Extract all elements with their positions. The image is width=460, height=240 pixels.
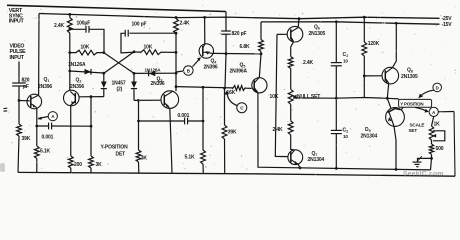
svg-text:820: 820 bbox=[22, 78, 30, 84]
node 0.001 left east bbox=[90, 125, 93, 128]
resistor 3K left bbox=[89, 156, 94, 168]
node X lower-left bbox=[102, 72, 105, 75]
wire Q7 emitter drop bbox=[298, 164, 300, 168]
wire video input drop bbox=[18, 62, 19, 173]
node cap tap left bbox=[68, 28, 71, 31]
potentiometer 10K null set bbox=[288, 89, 293, 104]
node 16K tap 5.1K bbox=[202, 86, 205, 89]
svg-text:2N1305: 2N1305 bbox=[309, 31, 326, 37]
wire null wiper line bbox=[293, 98, 399, 99]
label 10K left bbox=[81, 44, 90, 50]
transistor Q2 bbox=[64, 90, 80, 106]
resistor 39K left bbox=[17, 124, 22, 136]
node Q7 emitter junction bbox=[299, 167, 302, 170]
label Y-POSITION DET bbox=[101, 145, 129, 158]
resistor 6.8K bbox=[259, 40, 264, 52]
svg-text:10: 10 bbox=[343, 59, 348, 64]
label Q6 bbox=[314, 25, 320, 31]
wire base tie column bbox=[275, 34, 288, 156]
transistor Q7 bbox=[288, 150, 303, 165]
label 1K bbox=[434, 121, 441, 127]
label Q3 bbox=[157, 77, 163, 83]
wire 3K right column bbox=[138, 100, 140, 172]
svg-text:3K: 3K bbox=[141, 156, 148, 162]
label Q9 bbox=[365, 127, 371, 133]
svg-text:Y POSITION: Y POSITION bbox=[400, 102, 423, 107]
label 820 pF bbox=[22, 78, 30, 90]
resistor 39K right bbox=[222, 125, 227, 139]
wire 0.001 left link bbox=[37, 125, 91, 127]
node D arrow bbox=[418, 90, 433, 98]
label 2N396A Q5 bbox=[230, 69, 248, 75]
resistor 3K right bbox=[136, 150, 141, 162]
svg-text:2N396: 2N396 bbox=[70, 84, 84, 90]
node B circle bbox=[184, 66, 194, 76]
svg-text:D: D bbox=[436, 85, 439, 90]
label VIDEO PULSE INPUT bbox=[10, 44, 27, 62]
wire 820pF drop bbox=[225, 12, 226, 89]
svg-text:2.4K: 2.4K bbox=[180, 21, 191, 27]
label 500 bbox=[436, 146, 444, 152]
svg-text:(2): (2) bbox=[117, 87, 123, 93]
svg-text:39K: 39K bbox=[228, 130, 237, 136]
label 2N396 Q3 bbox=[151, 81, 165, 87]
wire 120K column bbox=[363, 17, 365, 97]
diode 1N457 left bbox=[101, 82, 107, 89]
label 1N126A right bbox=[145, 68, 162, 73]
node 500 ground junction bbox=[430, 157, 433, 160]
label 820 pF sync bbox=[232, 31, 247, 37]
svg-text:5.1K: 5.1K bbox=[185, 155, 196, 161]
svg-text:500: 500 bbox=[436, 146, 444, 152]
wire Q3 emitter drop bbox=[170, 108, 172, 173]
svg-text:100μF: 100μF bbox=[77, 21, 91, 27]
capacitor 100uF left bbox=[86, 26, 89, 33]
node 10K left west bbox=[68, 51, 71, 54]
wire Q1 base lead bbox=[19, 100, 30, 102]
node C arrow bbox=[224, 91, 237, 106]
capacitor 100pF right bbox=[125, 30, 128, 37]
wire 500 to ground bbox=[418, 154, 432, 162]
svg-text:2N1305: 2N1305 bbox=[401, 74, 418, 80]
node Q4 collector rail tap bbox=[203, 16, 206, 19]
transistor Q1 bbox=[27, 94, 42, 109]
node 16K tap 39K bbox=[223, 87, 226, 90]
label Q7 bbox=[312, 151, 318, 157]
box Y POSITION bbox=[399, 99, 432, 107]
wire 100uF right lead corner bbox=[89, 29, 104, 52]
wire 16K line bbox=[176, 87, 252, 89]
node C circle bbox=[237, 103, 247, 113]
svg-text:2.4K: 2.4K bbox=[54, 23, 65, 29]
resistor 200 bbox=[68, 156, 73, 168]
node X lower-right bbox=[133, 72, 136, 75]
svg-text:100 pF: 100 pF bbox=[132, 21, 147, 27]
wire A to right riser bbox=[438, 111, 454, 113]
resistor 5.1K left bbox=[34, 146, 39, 159]
label 2N1305 Q6 bbox=[309, 31, 326, 37]
ground symbol bbox=[413, 156, 422, 166]
svg-text:SCALE: SCALE bbox=[410, 122, 425, 127]
label 3K right bbox=[141, 156, 148, 162]
capacitor C2 bbox=[331, 130, 342, 133]
node 820pF junction bbox=[225, 52, 228, 55]
wire Q4 collector riser bbox=[204, 17, 206, 44]
label SCALE SET bbox=[409, 122, 425, 133]
svg-text:120K: 120K bbox=[368, 41, 380, 47]
label -25V bbox=[442, 16, 453, 22]
wire cross diagonal A bbox=[104, 53, 134, 74]
capacitor 820pF input bbox=[12, 83, 26, 86]
label Y POSITION bbox=[400, 102, 423, 107]
capacitor 0.001 left bbox=[49, 123, 52, 130]
node Q8 collector rail tap bbox=[395, 22, 398, 25]
transistor Q4 bbox=[199, 44, 213, 58]
label C2 bbox=[343, 128, 349, 140]
wire -25V rail bbox=[39, 14, 440, 19]
scan smudge left 1 bbox=[4, 108, 8, 111]
node 6.8K junction bbox=[260, 53, 263, 56]
wire 3K left column bbox=[90, 97, 92, 173]
svg-text:5.1K: 5.1K bbox=[40, 149, 51, 155]
label 5.1K right bbox=[185, 155, 196, 161]
svg-text:-15V: -15V bbox=[442, 22, 453, 28]
label 2N396 Q1 bbox=[38, 84, 52, 90]
wire 1N126A left line bbox=[70, 71, 104, 73]
wire -15V rail bbox=[261, 22, 440, 24]
resistor 10K right bbox=[134, 50, 176, 55]
resistor 2.4K right bbox=[174, 19, 179, 34]
label 2.4K Q7 bbox=[273, 127, 284, 133]
wire 100pF right lead bbox=[121, 33, 176, 53]
label 39K right bbox=[228, 130, 237, 136]
wire 6.8K column bbox=[259, 22, 261, 78]
svg-text:INPUT: INPUT bbox=[9, 18, 25, 24]
resistor 2.4K left bbox=[67, 18, 72, 34]
svg-text:820 pF: 820 pF bbox=[232, 31, 247, 37]
scan smudge left 2 bbox=[0, 163, 5, 172]
label 100pF right bbox=[132, 21, 147, 27]
label 6.8K bbox=[240, 44, 251, 50]
svg-text:2N396: 2N396 bbox=[151, 81, 165, 87]
label 3K left bbox=[96, 162, 103, 168]
label Q1 bbox=[44, 77, 50, 83]
node Q9 top junction bbox=[386, 97, 389, 100]
wire A to scale pot bbox=[432, 117, 434, 127]
wire Q8 emitter drop bbox=[387, 83, 388, 98]
svg-text:2.4K: 2.4K bbox=[303, 60, 314, 66]
node Q1 emitter junction bbox=[35, 125, 38, 128]
svg-text:Y-POSITION: Y-POSITION bbox=[101, 145, 129, 151]
node Q9 emitter junction bbox=[395, 168, 398, 171]
diode 1N126A left bbox=[85, 69, 92, 75]
label 0.001 left bbox=[42, 135, 54, 141]
wire arrow to A bbox=[415, 107, 429, 112]
node C1 wiper tap bbox=[335, 97, 338, 100]
wire 100uF left lead bbox=[70, 28, 86, 30]
label 2.4K right bbox=[180, 21, 191, 27]
svg-text:SET: SET bbox=[409, 128, 418, 133]
capacitor C1 bbox=[331, 63, 342, 66]
capacitor 820pF sync bbox=[221, 31, 231, 34]
label 120K bbox=[368, 41, 380, 47]
label Q5 bbox=[240, 63, 246, 69]
label 10K pot bbox=[270, 94, 279, 100]
svg-text:200: 200 bbox=[74, 162, 82, 168]
wire Q5 emitter run bbox=[258, 93, 431, 170]
svg-text:10K: 10K bbox=[270, 94, 279, 100]
wire right edge riser bbox=[454, 112, 455, 177]
label 2.4K left bbox=[54, 23, 65, 29]
label 2.4K Q6 bbox=[303, 60, 314, 66]
node A output circle bbox=[429, 107, 438, 116]
label 1N457 (2) bbox=[112, 81, 126, 93]
label 100uF bbox=[77, 21, 91, 27]
wire bottom common rail bbox=[18, 172, 455, 176]
wire cross diagonal B bbox=[104, 52, 134, 73]
label NULL SET bbox=[297, 94, 320, 100]
diode 1N126A right bbox=[149, 71, 156, 77]
svg-text:3K: 3K bbox=[96, 162, 103, 168]
resistor 5.1K right bbox=[201, 150, 206, 164]
label Q4 bbox=[211, 59, 217, 65]
resistor 2.4K Q6 bbox=[288, 57, 293, 69]
scan speckle noise bbox=[7, 5, 456, 178]
svg-text:DET: DET bbox=[116, 152, 126, 158]
svg-text:NULL SET: NULL SET bbox=[297, 94, 320, 100]
node Q3 base bias tap bbox=[137, 99, 140, 102]
wire Q4 emitter line bbox=[213, 52, 261, 55]
watermark SeekIC.com bbox=[403, 170, 444, 177]
wire junction to common bbox=[431, 158, 432, 170]
label 200 bbox=[74, 162, 82, 168]
node 10K right east bbox=[175, 51, 178, 54]
label VERT SYNC INPUT bbox=[9, 8, 25, 24]
wire Q6 emitter column bbox=[291, 42, 294, 150]
wire Q6 collector riser bbox=[297, 19, 300, 28]
label 0.001 right bbox=[178, 113, 190, 119]
node X upper-right bbox=[133, 50, 136, 53]
wire Q1 emitter drop bbox=[36, 108, 38, 173]
node B stub bbox=[176, 71, 184, 72]
svg-text:39K: 39K bbox=[22, 136, 31, 142]
node 1N126A right east bbox=[175, 72, 178, 75]
wire Q9 collector link bbox=[401, 107, 403, 110]
svg-text:2N396A: 2N396A bbox=[230, 69, 248, 75]
wire Q8 collector riser bbox=[392, 23, 396, 67]
resistor 2.4K Q7 bbox=[288, 121, 293, 135]
transistor Q9 bbox=[386, 98, 405, 126]
label 10K right bbox=[144, 44, 153, 50]
wire 1N126A right line bbox=[134, 72, 176, 74]
potentiometer 1K scale set bbox=[429, 126, 433, 140]
node A circle bbox=[48, 112, 57, 121]
label 2N396 Q4 bbox=[204, 65, 218, 71]
wire right flipflop column bbox=[175, 18, 177, 92]
svg-text:6.8K: 6.8K bbox=[240, 44, 251, 50]
wire left flipflop column bbox=[69, 14, 71, 90]
svg-text:SeekIC.com: SeekIC.com bbox=[403, 170, 444, 177]
resistor 120K bbox=[362, 42, 367, 56]
label Q8 bbox=[407, 68, 413, 74]
node X upper-left bbox=[102, 51, 105, 54]
node rail tap 2.4K left bbox=[68, 13, 71, 16]
node 16K line west bbox=[175, 85, 178, 88]
wire Q8 base lead bbox=[364, 75, 382, 77]
label 5.1K left bbox=[40, 149, 51, 155]
node rail tap 2.4K right bbox=[175, 16, 178, 19]
svg-text:10K: 10K bbox=[144, 44, 153, 50]
svg-text:1K: 1K bbox=[434, 121, 441, 127]
node 0.001 right east bbox=[202, 120, 205, 123]
label Q2 bbox=[76, 78, 82, 84]
svg-text:10K: 10K bbox=[81, 44, 90, 50]
svg-text:1N126A: 1N126A bbox=[68, 62, 86, 68]
svg-text:2N1304: 2N1304 bbox=[361, 133, 378, 139]
resistor 16K bbox=[232, 86, 246, 91]
node Q2 base bias tap bbox=[90, 95, 93, 98]
diode 1N457 right bbox=[131, 82, 137, 89]
svg-text:0.001: 0.001 bbox=[42, 135, 54, 141]
node A stub arrow bbox=[37, 117, 48, 120]
label 1N126A left bbox=[68, 62, 86, 68]
wire Q4 base arrow bbox=[192, 57, 201, 67]
node base tap Q1 bbox=[18, 99, 21, 102]
wire C1 C2 column bbox=[335, 22, 337, 169]
node C column rail tap bbox=[335, 20, 338, 23]
svg-text:2.4K: 2.4K bbox=[273, 127, 284, 133]
wiper loop scale set bbox=[432, 131, 445, 141]
transistor Q6 bbox=[287, 26, 303, 42]
node 1N126A left west bbox=[68, 70, 71, 73]
node Q8 base tap bbox=[363, 75, 366, 78]
svg-text:INPUT: INPUT bbox=[10, 55, 25, 61]
resistor 500 bbox=[429, 140, 433, 154]
label -15V bbox=[442, 22, 453, 28]
label 2N1305 Q8 bbox=[401, 74, 418, 80]
node C2 bottom junction bbox=[335, 167, 338, 170]
node 120K rail tap bbox=[363, 16, 366, 19]
capacitor 0.001 right bbox=[185, 118, 188, 125]
svg-text:2N396: 2N396 bbox=[204, 65, 218, 71]
wire 1N457 left column bbox=[103, 73, 105, 96]
wire Q2 base line bbox=[79, 96, 104, 98]
transistor Q5 bbox=[252, 78, 267, 93]
wire VERT SYNC input line bbox=[7, 5, 226, 11]
wire 39K right column bbox=[224, 88, 226, 173]
wire Q3 base line bbox=[134, 99, 161, 101]
svg-text:2N396: 2N396 bbox=[38, 84, 52, 90]
svg-text:-25V: -25V bbox=[442, 16, 453, 22]
node 0.001 right west bbox=[137, 120, 140, 123]
wire 1N457 right column bbox=[133, 73, 135, 100]
wiper arrow null set bbox=[293, 95, 297, 99]
svg-text:1N126A: 1N126A bbox=[145, 68, 162, 73]
label 2N1304 Q9 bbox=[361, 133, 378, 139]
label 16K bbox=[227, 90, 236, 96]
svg-text:pF: pF bbox=[23, 84, 29, 90]
label 39K left bbox=[22, 136, 31, 142]
wire Q6 base lead bbox=[277, 33, 287, 35]
wire Q2 emitter drop bbox=[70, 106, 72, 173]
wire 5.1K right column bbox=[202, 87, 204, 172]
svg-text:2N1304: 2N1304 bbox=[308, 157, 325, 163]
transistor Q3 bbox=[161, 91, 179, 109]
resistor 10K left bbox=[70, 50, 104, 55]
label 2N1304 Q7 bbox=[308, 157, 325, 163]
svg-text:10: 10 bbox=[343, 134, 348, 139]
wire 0.001 right link bbox=[139, 120, 204, 122]
svg-text:0.001: 0.001 bbox=[178, 113, 190, 119]
label C1 bbox=[343, 52, 349, 64]
wire Q1 collector riser bbox=[38, 14, 40, 96]
label 2N396 Q2 bbox=[70, 84, 84, 90]
transistor Q8 bbox=[382, 67, 399, 84]
wire Q9 emitter drop bbox=[394, 126, 396, 169]
node cap tap right bbox=[175, 32, 178, 35]
node Q6 collector rail tap bbox=[298, 17, 301, 20]
node D circle bbox=[433, 83, 442, 92]
